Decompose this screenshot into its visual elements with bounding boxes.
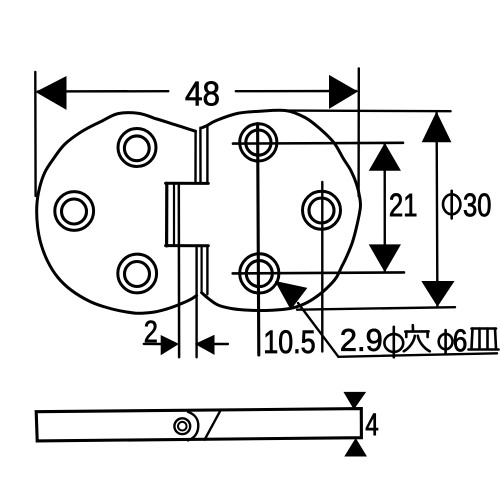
label 6 bbox=[454, 329, 466, 351]
label 10.5 bbox=[265, 330, 314, 353]
pin line B (top) bbox=[199, 128, 202, 183]
arrowhead dim2 pointing left bbox=[196, 336, 214, 355]
knuckle edge C (right plate left edge, top) bbox=[206, 125, 208, 183]
hole left-top inner bbox=[124, 136, 149, 161]
hole left-mid inner bbox=[62, 199, 87, 224]
hole left-top outer bbox=[118, 129, 156, 167]
leader line right of dim 2 bbox=[214, 343, 228, 345]
hole right-top inner bbox=[246, 130, 271, 155]
dimension line 48 left segment bbox=[38, 90, 168, 93]
label 4 bbox=[366, 414, 378, 436]
right plate outline bbox=[202, 110, 361, 310]
arrowhead 21 up bbox=[370, 144, 401, 170]
side view knuckle cap bbox=[188, 412, 198, 441]
arrowhead 48 left bbox=[37, 77, 66, 109]
phi symbol small 2 bbox=[439, 334, 453, 349]
arrowhead dim4 down bbox=[344, 392, 365, 408]
extension line phi30 bottom bbox=[297, 307, 455, 310]
label 21 bbox=[390, 193, 416, 216]
knuckle step upper bbox=[166, 182, 209, 185]
extension line 48 left bbox=[34, 72, 37, 196]
hole left-bottom outer bbox=[118, 254, 157, 293]
arrowhead 21 down bbox=[370, 245, 401, 271]
side view plate outline bbox=[36, 409, 361, 441]
extension line 21 top through hole bbox=[233, 142, 403, 145]
arrowhead phi30 up bbox=[423, 113, 451, 142]
kanji ana (hole) bbox=[404, 325, 430, 351]
knuckle step lower bbox=[166, 244, 209, 247]
hole right-top/bottom centerline vertical bbox=[258, 124, 259, 355]
arrowhead 48 right bbox=[330, 76, 358, 108]
kanji sara (dish/countersink) bbox=[469, 329, 499, 350]
arrowhead phi30 down bbox=[422, 282, 453, 306]
extension line 21 bottom through hole bbox=[233, 272, 404, 273]
leader line left of dim 2 bbox=[144, 343, 162, 346]
label 2.9 bbox=[341, 329, 381, 351]
hole left-bottom inner bbox=[125, 262, 150, 287]
hole right-mid inner bbox=[309, 198, 334, 223]
knuckle edge F and extension G for dim 2 bbox=[178, 184, 181, 357]
arrowhead dim4 up bbox=[345, 439, 366, 456]
knuckle edge H and extension for dim 2 bbox=[195, 246, 197, 357]
dimension line 48 right segment bbox=[236, 90, 356, 93]
pin line I (bottom) bbox=[201, 246, 203, 293]
hole left-mid outer bbox=[55, 192, 94, 231]
dimension line phi30 bbox=[435, 113, 438, 306]
pin line E (middle) bbox=[173, 184, 175, 246]
label 48 bbox=[186, 81, 219, 105]
knuckle edge D (middle left) bbox=[165, 183, 168, 246]
side view pin inner circle bbox=[178, 422, 187, 431]
extension line 48 right bbox=[357, 68, 360, 196]
knuckle edge J (right plate left edge, bottom) bbox=[206, 246, 208, 294]
centerline for right-mid hole down to note bbox=[321, 182, 323, 352]
dimension line 21 bbox=[384, 144, 386, 271]
label 2 bbox=[145, 321, 156, 343]
label phi30: 30 bbox=[464, 193, 490, 216]
side view bend line bbox=[205, 411, 221, 440]
label phi30: phi symbol bbox=[443, 194, 460, 214]
leader diagonal line bbox=[298, 303, 338, 357]
extension line phi30 top bbox=[286, 109, 451, 112]
hole right-top outer bbox=[240, 124, 277, 161]
hole right-bottom outer bbox=[240, 254, 279, 293]
arrowhead dim2 pointing right bbox=[161, 336, 178, 355]
hole right-mid outer bbox=[303, 191, 341, 229]
leader underline below note text bbox=[338, 353, 497, 357]
phi symbol small 1 bbox=[384, 334, 403, 352]
left plate outline bbox=[37, 113, 197, 314]
side view pin outer circle bbox=[174, 418, 190, 434]
leader arrowhead at right-bottom hole bbox=[276, 282, 307, 309]
knuckle edge A (left plate right edge, top) bbox=[194, 131, 197, 183]
hole right-bottom inner bbox=[246, 261, 272, 287]
